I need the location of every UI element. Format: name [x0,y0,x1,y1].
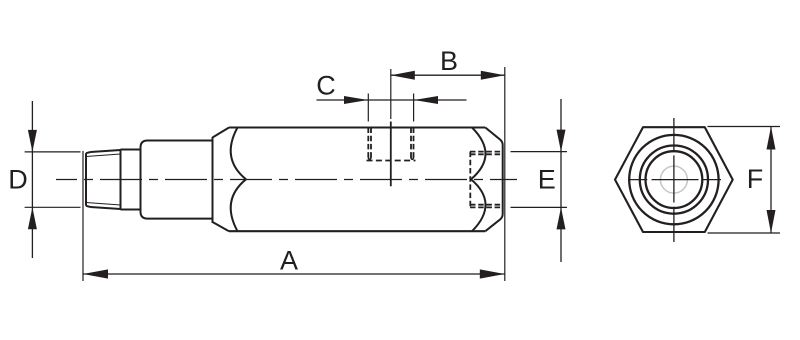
wire: A left extension line [82,151,84,281]
dim F arrow bottom [767,210,776,233]
svg-text:F: F [747,164,764,194]
dim E extension bottom [511,206,568,208]
hex right end cap [485,128,502,232]
thread minor top [86,154,121,157]
svg-text:B: B [440,46,458,76]
hex left lower arc [231,179,246,231]
dim E line [560,99,562,262]
dim C line [317,99,467,101]
dim B arrow left [391,71,415,80]
hex chamfer top-left [213,128,230,138]
end view horizontal centerline [628,179,721,181]
cross hole dashed left inner [370,128,372,158]
dim A arrow left [83,269,108,278]
end view bore circle [646,151,703,208]
dim D extension bottom [25,206,81,208]
hex bottom line [229,230,485,232]
cross hole dashed right outer [413,128,415,158]
cross hole bottom dashed [367,160,416,162]
dim D arrow bottom [28,207,37,229]
dim C arrow right [414,96,438,104]
dim F line [770,127,772,234]
dim C extension left [367,94,369,122]
dim B arrow right [481,71,505,80]
hex top line [229,126,485,128]
dim E extension top [511,151,568,153]
cross hole right bottom hook [411,157,414,160]
end view hexagon [615,127,733,232]
thread end vertical [120,150,122,210]
svg-text:D: D [8,165,28,195]
end view vertical centerline [673,118,675,242]
cross hole dashed left outer [367,128,369,158]
thread end face [85,153,87,206]
hidden bore dashed top outer [470,151,501,153]
svg-text:C: C [316,71,336,101]
hex right upper arc [471,128,486,180]
pilot top [121,149,141,151]
cross hole dashed right inner [410,128,412,158]
end view thread outer circle [640,146,708,214]
thread minor bottom [86,203,121,206]
thread major top [91,150,121,152]
hidden bore dashed bottom inner [470,204,501,206]
cross hole left bottom hook [368,157,371,160]
hidden bore dashed top inner [470,153,501,155]
dim A arrow right [480,269,505,278]
wire: B/A right extension line [504,67,506,281]
shoulder cylinder [141,141,213,219]
dim D line [31,101,33,258]
hex chamfer bottom-left [213,222,230,231]
dim D arrow top [28,130,37,152]
hidden bore end dashed vertical [469,152,471,208]
dim C extension right [413,94,415,122]
dim E arrow top [557,130,566,152]
end view inner light circle [660,166,687,193]
dim F extension top [708,126,781,128]
dim A line [83,273,505,275]
svg-text:A: A [280,245,298,275]
cross hole axis line [390,122,392,187]
hex junction vertical [212,137,214,223]
wire: B left extension / hole axis upper [390,69,392,119]
dim B line [391,74,505,76]
hex left upper arc [231,128,246,180]
dim E arrow bottom [557,207,566,229]
thread chamfer bottom [86,206,91,207]
centerline side view [56,179,517,181]
hidden bore dashed bottom outer [470,206,501,208]
dim D extension top [25,151,81,153]
dim F arrow top [767,127,776,150]
end view chamfer circle [629,135,718,224]
thread major bottom [91,207,121,209]
thread chamfer top [86,152,91,153]
dim F extension bottom [708,232,781,234]
hex right lower arc [471,179,486,231]
dim C arrow left [344,96,368,104]
pilot bottom [121,209,141,211]
svg-text:E: E [538,164,556,194]
